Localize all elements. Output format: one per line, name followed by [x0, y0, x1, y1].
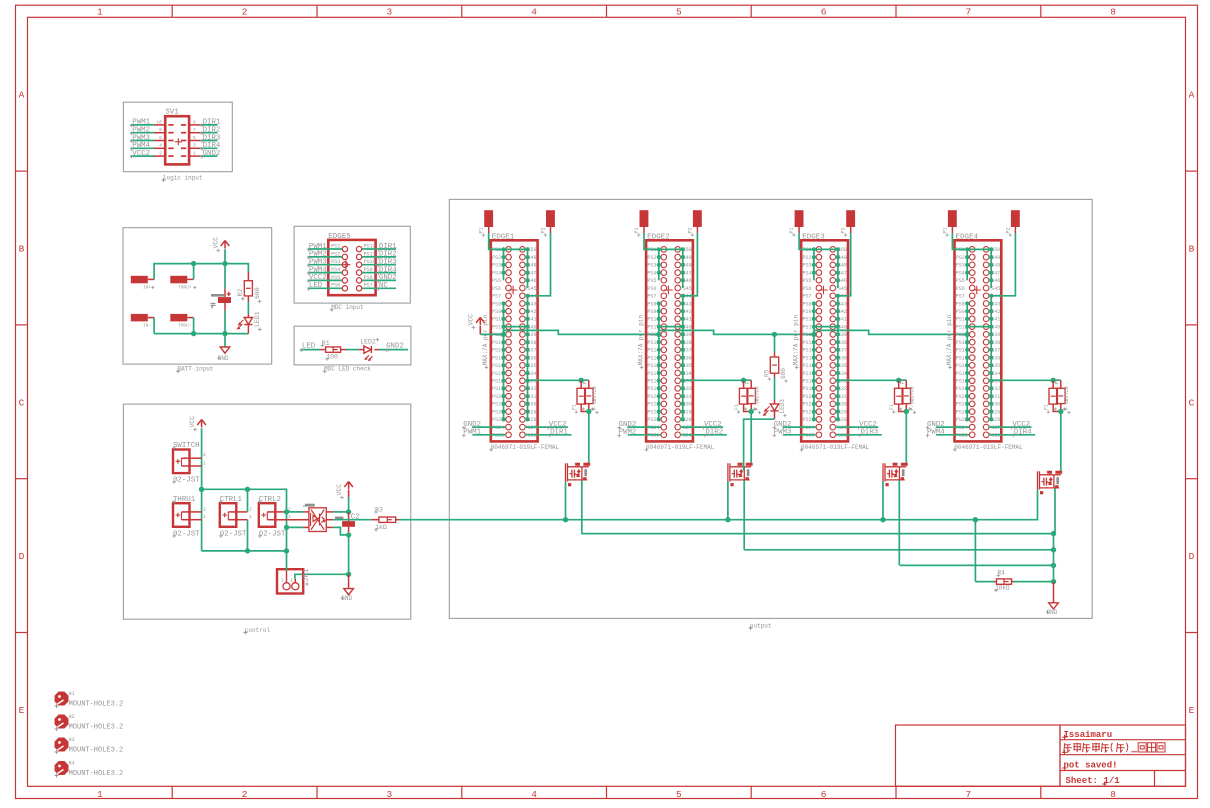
wire EDGE4 row11 cross-connect: [967, 326, 991, 328]
svg-text:NC: NC: [379, 282, 388, 290]
svg-text:2: 2: [159, 151, 162, 157]
power VCC symbol (control top): [197, 420, 206, 428]
svg-text:PWM2: PWM2: [309, 251, 327, 259]
svg-text:3: 3: [387, 789, 393, 800]
wire VCC down to opto junction: [348, 497, 350, 512]
svg-text:E: E: [1189, 705, 1195, 716]
wire tab1 to EDGE4 row1: [952, 233, 991, 249]
svg-text:F1: F1: [571, 404, 577, 410]
THRU1 pin 1: [190, 519, 202, 521]
junction CTRL2 pin2 / opto feed: [284, 509, 289, 514]
wire EDGE2 row11 cross-connect: [659, 326, 683, 328]
EDGE2 right pin bus wire rows 7-23: [682, 296, 684, 420]
SV1 pin 9 net DIR1 wire: [189, 124, 200, 126]
svg-text:PS6: PS6: [647, 286, 656, 292]
net GND2 wire left of EDGE1: [472, 426, 505, 428]
opto bottom-right pin jog to C2 bottom: [326, 526, 333, 528]
P-switch dual fuse body: [580, 380, 582, 388]
svg-text:MOUNT-HOLE3.2: MOUNT-HOLE3.2: [69, 724, 124, 732]
svg-text:H2: H2: [69, 714, 75, 720]
svg-text:LED: LED: [302, 342, 316, 350]
wire VCC to EDGE1 row12: [480, 333, 503, 335]
net PWM1 wire left of EDGE1: [472, 434, 505, 436]
svg-text:0046971-019LF-FEMAL: 0046971-019LF-FEMAL: [954, 444, 1023, 451]
wire collector EDGE1: [582, 533, 1054, 535]
resistor R5: [774, 353, 776, 358]
svg-text:C: C: [1189, 397, 1195, 408]
opto right pin to VCC node: [326, 511, 333, 513]
svg-text:100: 100: [326, 353, 338, 360]
svg-text:F1: F1: [1043, 404, 1049, 410]
svg-text:680: 680: [780, 368, 787, 379]
svg-text:PS5: PS5: [956, 278, 965, 284]
connector EDGE3 origin cross: [819, 286, 828, 295]
svg-text:SWITCH: SWITCH: [173, 442, 200, 450]
svg-text:MAX:7A per pin: MAX:7A per pin: [946, 314, 953, 365]
svg-text:PWM3: PWM3: [309, 259, 327, 267]
svg-text:PS2: PS2: [647, 255, 656, 261]
svg-text:PS5: PS5: [647, 278, 656, 284]
net VCC2 wire right of EDGE4: [989, 426, 1031, 428]
svg-text:4: 4: [159, 143, 162, 149]
svg-text:1: 1: [203, 514, 206, 520]
svg-text:PS2: PS2: [803, 255, 812, 261]
svg-text:H4: H4: [69, 761, 75, 767]
svg-text:P2: P2: [1005, 227, 1011, 233]
svg-text:1: 1: [97, 789, 103, 800]
svg-text:not saved!: not saved!: [1064, 761, 1118, 771]
section box MDC LED check: [294, 326, 411, 365]
svg-text:D: D: [1189, 551, 1195, 562]
SV1 pin 6 net PWM3 wire: [131, 140, 154, 142]
junction rail w2: [1051, 531, 1056, 536]
mount hole H4: [55, 761, 69, 775]
junction at VCC/C1: [222, 261, 227, 266]
svg-text:PS5: PS5: [331, 275, 340, 281]
connector EDGE5 body: [328, 240, 375, 295]
junction bottom THRU-: [191, 331, 196, 336]
svg-text:PS8: PS8: [956, 301, 965, 307]
svg-text:4: 4: [531, 789, 537, 800]
svg-text:VCC: VCC: [213, 237, 220, 249]
svg-text:GND2: GND2: [379, 274, 397, 282]
connector THRU1: [173, 503, 190, 527]
title text Issaimaru: [1062, 735, 1067, 740]
wire EDGE4 row18 to P-switch: [991, 379, 1053, 381]
svg-text:5: 5: [193, 135, 196, 141]
power MOSFET symbol: [738, 463, 743, 466]
svg-text:PWM4: PWM4: [309, 266, 327, 274]
CTRL2 pin 1 wire to optocoupler: [275, 519, 309, 521]
mount hole H1: [55, 692, 69, 706]
connector EDGE4 pin circles and labels PS1-PS50: [969, 247, 975, 253]
svg-text:PS4: PS4: [492, 270, 501, 276]
svg-text:JP1: JP1: [303, 568, 311, 582]
wire LED2 to GND2: [375, 349, 380, 351]
connector SWITCH: [173, 450, 190, 474]
junction gate EDGE3: [880, 517, 885, 522]
EDGE3 bus junction dots: [812, 247, 816, 251]
power VCC symbol (output, EDGE1): [476, 317, 485, 325]
EDGE3 left pin bus wire rows 8-23: [813, 304, 815, 420]
svg-text:2: 2: [281, 578, 284, 584]
svg-text:PWM3: PWM3: [132, 134, 150, 142]
SV1 pin 8 net PWM2 wire: [131, 132, 154, 134]
capacitor C1: [224, 264, 226, 289]
title block doc field box: [896, 725, 1061, 786]
tab pad 2 of EDGE2: [693, 210, 702, 227]
CTRL1 pin 1: [236, 519, 247, 521]
wire EDGE3 row11 cross-connect: [814, 326, 838, 328]
svg-text:PS9: PS9: [803, 309, 812, 315]
svg-text:EDGE3: EDGE3: [802, 234, 825, 242]
svg-text:7: 7: [966, 7, 972, 18]
svg-text:2: 2: [249, 506, 252, 512]
section box output: [449, 199, 1092, 618]
tab pad 2 of EDGE1: [546, 210, 555, 227]
svg-text:MOUNT-HOLE3.2: MOUNT-HOLE3.2: [69, 701, 124, 709]
net GND2 wire left of EDGE3: [783, 426, 816, 428]
svg-text:THRU1: THRU1: [173, 496, 196, 504]
wire bottom bus BATT: [154, 333, 248, 335]
section box MDC input: [294, 226, 410, 303]
wire output (through C2 area) to R3: [333, 519, 371, 521]
svg-text:PS8: PS8: [364, 275, 373, 281]
svg-text:7: 7: [193, 127, 196, 133]
svg-text:02-JST: 02-JST: [259, 530, 286, 538]
junction bottom bus JP1: [284, 548, 289, 553]
ground symbol control: [348, 574, 350, 588]
svg-text:02-JST: 02-JST: [173, 530, 200, 538]
resistor R2: [247, 272, 249, 281]
svg-text:CTRL2: CTRL2: [259, 496, 281, 504]
optocoupler U1 (solid state relay): [309, 508, 326, 532]
svg-text:MDC input: MDC input: [331, 304, 363, 311]
junction gate EDGE2: [725, 517, 730, 522]
EDGE1 right pin bus wire rows 7-23: [527, 296, 529, 420]
junction P-switch feed EDGE2: [741, 378, 746, 383]
svg-text:PS45: PS45: [988, 286, 1000, 292]
svg-text:R1: R1: [322, 340, 330, 347]
svg-text:PWM4: PWM4: [132, 142, 150, 150]
svg-text:PS3: PS3: [331, 259, 340, 265]
wire tab1 to EDGE2 row1: [644, 233, 683, 249]
connector EDGE1 pin circles and labels PS1-PS50: [506, 247, 512, 253]
svg-text:PS6: PS6: [956, 286, 965, 292]
SV1 pin 4 net PWM4 wire: [131, 147, 154, 149]
svg-text:DIR3: DIR3: [203, 134, 221, 142]
svg-text:02-JST: 02-JST: [173, 476, 200, 484]
wire EDGE1 row18 to P-switch: [528, 379, 582, 381]
svg-text:PS7: PS7: [492, 294, 501, 300]
svg-text:2: 2: [242, 789, 248, 800]
svg-text:PS2: PS2: [492, 255, 501, 261]
net VCC2 wire right of EDGE2: [681, 426, 723, 428]
junction R4 tap: [973, 517, 978, 522]
svg-text:THRU-: THRU-: [178, 323, 192, 329]
svg-text:LED2: LED2: [360, 339, 376, 346]
net VCC2 wire right of EDGE3: [836, 426, 878, 428]
EDGE3 right pin bus wire rows 1-6: [837, 249, 839, 288]
EDGE5 pin PS6 net LED: [308, 287, 342, 289]
SV1 pin 3 net DIR4 wire: [189, 147, 200, 149]
EDGE1 right pin bus wire rows 1-6: [527, 249, 529, 288]
svg-text:MAX:7A per pin: MAX:7A per pin: [793, 314, 800, 365]
svg-text:P-SWITCH: P-SWITCH: [755, 386, 761, 410]
EDGE3 left pin bus wire rows 1-5: [813, 249, 815, 280]
wire MOSFET drain EDGE1 to collector line: [581, 480, 583, 533]
wire VCC chain EDGE1 to EDGE2: [504, 330, 659, 334]
svg-text:PS2: PS2: [956, 255, 965, 261]
svg-text:P1: P1: [479, 227, 485, 233]
pad THRU+: [170, 276, 187, 284]
svg-text:PS7: PS7: [647, 294, 656, 300]
svg-text:PS45: PS45: [525, 286, 537, 292]
svg-text:GND: GND: [341, 595, 352, 602]
junction rail w3: [1051, 547, 1056, 552]
svg-text:PS8: PS8: [492, 301, 501, 307]
tab pad 1 of EDGE3: [795, 210, 804, 227]
section box BATT input: [123, 228, 272, 364]
EDGE5 pin PS11 net DIR2: [362, 256, 396, 258]
svg-text:P-SWITCH: P-SWITCH: [1064, 386, 1070, 410]
svg-text:MDC LED check: MDC LED check: [324, 366, 371, 373]
svg-text:PS7: PS7: [364, 283, 373, 289]
svg-text:1: 1: [203, 461, 206, 467]
CTRL1 pin 2: [236, 511, 247, 513]
svg-text:PWM1: PWM1: [463, 429, 481, 437]
svg-text:R4: R4: [998, 570, 1006, 577]
svg-text:PWM2: PWM2: [619, 429, 637, 437]
ground symbol BATT: [220, 347, 230, 353]
EDGE2 bus junction dots: [657, 247, 661, 251]
wire tab2 to EDGE4 row7: [991, 233, 1015, 296]
P-switch bottom junction: [1058, 409, 1063, 414]
capacitor C2: [348, 512, 350, 521]
svg-text:5: 5: [676, 789, 682, 800]
svg-text:6: 6: [821, 7, 827, 18]
wire opto upper-left feed: [287, 511, 304, 513]
wire P-switch to MOSFET EDGE2: [750, 412, 752, 463]
EDGE5 pin PS3 net PWM3: [308, 264, 342, 266]
junction rail R4: [1051, 579, 1056, 584]
junction VCC EDGE1 row12: [501, 332, 506, 337]
svg-text:P2: P2: [541, 227, 547, 233]
svg-text:PS1: PS1: [331, 243, 340, 249]
power VCC symbol (BATT): [221, 241, 230, 249]
wire VCC chain EDGE2 to EDGE3: [659, 330, 814, 334]
P-switch dual fuse body: [898, 380, 900, 388]
svg-text:P-SWITCH: P-SWITCH: [592, 386, 598, 410]
connector EDGE4 part value 0046971-019LF-FEMAL: [953, 448, 957, 452]
svg-text:VCC: VCC: [336, 484, 343, 496]
svg-text:GND: GND: [1047, 609, 1058, 616]
wire R1 to LED2: [346, 349, 360, 351]
wire EDGE2 row18 to P-switch: [683, 379, 744, 381]
svg-text:8: 8: [159, 127, 162, 133]
svg-text:B: B: [1189, 244, 1195, 255]
EDGE5 pin PS7 net NC: [362, 287, 396, 289]
wire MOSFET gate EDGE3 to control line: [882, 482, 884, 520]
SV1 pin 1 net GND2 wire: [189, 155, 200, 157]
svg-text:02-JST: 02-JST: [220, 530, 247, 538]
svg-text:PS7: PS7: [956, 294, 965, 300]
EDGE4 left pin bus wire rows 1-5: [966, 249, 968, 280]
net PWM3 wire left of EDGE3: [783, 434, 816, 436]
power MOSFET symbol: [575, 463, 580, 466]
svg-text:R5: R5: [764, 369, 771, 377]
svg-text:IN-: IN-: [143, 323, 151, 329]
svg-text:PS2: PS2: [331, 251, 340, 257]
SV1 pin 7 net DIR2 wire: [189, 132, 200, 134]
net DIR4 wire right of EDGE4: [989, 434, 1035, 436]
svg-text:DIR4: DIR4: [203, 142, 221, 150]
svg-text:1/1: 1/1: [1104, 776, 1121, 786]
power MOSFET symbol: [893, 463, 898, 466]
svg-text:PS9: PS9: [364, 267, 373, 273]
svg-text:3: 3: [387, 7, 393, 18]
LED LED1: [247, 314, 249, 318]
svg-text:F1: F1: [734, 404, 740, 410]
svg-text:logic input: logic input: [163, 174, 203, 181]
svg-text:P2: P2: [841, 227, 847, 233]
svg-text:5: 5: [676, 7, 682, 18]
EDGE4 left pin bus wire rows 8-23: [966, 304, 968, 420]
junction P-switch feed EDGE3: [896, 378, 901, 383]
connector EDGE1 body: [491, 240, 538, 441]
EDGE3 right pin bus wire rows 7-23: [837, 296, 839, 420]
svg-text:F1: F1: [889, 404, 895, 410]
svg-text:2: 2: [242, 7, 248, 18]
svg-text:F2: F2: [583, 378, 589, 384]
connector JP1: [277, 569, 303, 593]
P-switch bottom junction: [749, 409, 754, 414]
EDGE5 pin PS10 net DIR3: [362, 264, 396, 266]
svg-text:GND2: GND2: [203, 150, 221, 158]
P-switch dual fuse body: [743, 380, 745, 388]
junction C2 bottom: [346, 532, 351, 537]
junction CTRL1 pin2 riser: [245, 487, 250, 492]
mount hole H3: [55, 738, 69, 752]
P-switch bottom junction: [586, 409, 591, 414]
wire VCC to SWITCH and down to bottom bus: [201, 428, 203, 551]
svg-text:PS11: PS11: [364, 251, 376, 257]
net GND2 wire left of EDGE2: [627, 426, 660, 428]
connector EDGE1 origin cross: [509, 286, 518, 295]
EDGE5 pin PS4 net PWM4: [308, 272, 342, 274]
connector EDGE2 body: [646, 240, 693, 441]
junction chain at EDGE4 row12: [965, 332, 970, 337]
svg-text:PS4: PS4: [647, 270, 656, 276]
svg-text:P1: P1: [789, 227, 795, 233]
junction bottom bus CTRL1: [245, 548, 250, 553]
tab pad 1 of EDGE2: [640, 210, 649, 227]
wire collector EDGE2: [744, 549, 1053, 551]
svg-text:1: 1: [193, 151, 196, 157]
svg-text:F2: F2: [745, 378, 751, 384]
section caption output: [749, 626, 753, 630]
svg-text:DIR2: DIR2: [203, 127, 221, 135]
connector EDGE4 body: [955, 240, 1002, 441]
wire R5 to LED3: [774, 378, 776, 401]
svg-text:PS6: PS6: [331, 283, 340, 289]
net DIR3 wire right of EDGE3: [836, 434, 882, 436]
svg-text:PS4: PS4: [803, 270, 812, 276]
wire tab1 to EDGE1 row1: [489, 233, 528, 249]
connector EDGE2 part value 0046971-019LF-FEMAL: [645, 448, 649, 452]
net PWM2 wire left of EDGE2: [628, 434, 661, 436]
mount hole H2: [55, 715, 69, 729]
P-switch dual fuse body: [1052, 380, 1054, 388]
net LED wire: [301, 349, 321, 351]
opto right pin output wire: [326, 519, 333, 521]
section box control: [123, 404, 410, 619]
wire P-switch to MOSFET EDGE3: [905, 412, 907, 463]
junction bottom GND: [222, 331, 227, 336]
wire collector EDGE3: [900, 564, 1054, 566]
svg-text:IN+: IN+: [143, 285, 151, 291]
wire bus upper (pin2 bus): [202, 489, 287, 551]
svg-text:PWM3: PWM3: [774, 429, 792, 437]
resistor R4: [994, 581, 997, 583]
junction rail w4: [1051, 563, 1056, 568]
svg-text:output: output: [750, 622, 772, 629]
svg-text:GND: GND: [218, 355, 229, 362]
svg-text:F2: F2: [1055, 378, 1061, 384]
svg-text:PS3: PS3: [803, 263, 812, 269]
svg-text:680: 680: [254, 287, 261, 299]
net PWM4 wire left of EDGE4: [936, 434, 969, 436]
svg-text:EDGE1: EDGE1: [492, 234, 515, 242]
SV1 pin 5 net DIR3 wire: [189, 140, 200, 142]
section caption MDC LED check: [323, 369, 327, 373]
svg-text:control: control: [245, 627, 271, 634]
svg-text:7: 7: [966, 789, 972, 800]
wire EDGE1 row11 cross-connect: [504, 326, 528, 328]
tab pad 2 of EDGE3: [846, 210, 855, 227]
wire P-switch to MOSFET EDGE4: [1060, 412, 1062, 471]
SV1 pin 10 net PWM1 wire: [131, 124, 154, 126]
svg-text:PS3: PS3: [492, 263, 501, 269]
svg-text:BATT input: BATT input: [177, 366, 213, 373]
svg-text:2: 2: [203, 506, 206, 512]
svg-text:EDGE5: EDGE5: [328, 233, 351, 241]
svg-text:1: 1: [290, 578, 293, 584]
net GND2 wire left of EDGE4: [936, 426, 969, 428]
THRU1 pin 2: [190, 511, 202, 513]
svg-text:DIR1: DIR1: [379, 243, 397, 251]
wire tab1 to EDGE3 row1: [799, 233, 838, 249]
wire VCC chain EDGE3 to EDGE4: [814, 330, 967, 334]
svg-text:PWM2: PWM2: [132, 127, 150, 135]
net DIR2 wire right of EDGE2: [681, 434, 727, 436]
svg-text:P1: P1: [942, 227, 948, 233]
svg-text:PS6: PS6: [803, 286, 812, 292]
svg-text:1: 1: [249, 514, 252, 520]
SWITCH pin 2: [190, 457, 202, 459]
wire R4 branch: [974, 520, 976, 582]
svg-text:PWM1: PWM1: [309, 243, 327, 251]
svg-text:10: 10: [156, 119, 162, 125]
EDGE2 left pin bus wire rows 1-5: [658, 249, 660, 280]
svg-text:PS3: PS3: [956, 263, 965, 269]
svg-text:P2: P2: [687, 227, 693, 233]
wire MOSFET gate EDGE4 to control line end: [1037, 490, 1039, 520]
svg-text:VCC2: VCC2: [132, 150, 150, 158]
wire MOSFET drain EDGE4 to rail: [1054, 488, 1056, 533]
svg-text:9: 9: [193, 119, 196, 125]
svg-text:MAX:7A per pin: MAX:7A per pin: [637, 314, 644, 365]
